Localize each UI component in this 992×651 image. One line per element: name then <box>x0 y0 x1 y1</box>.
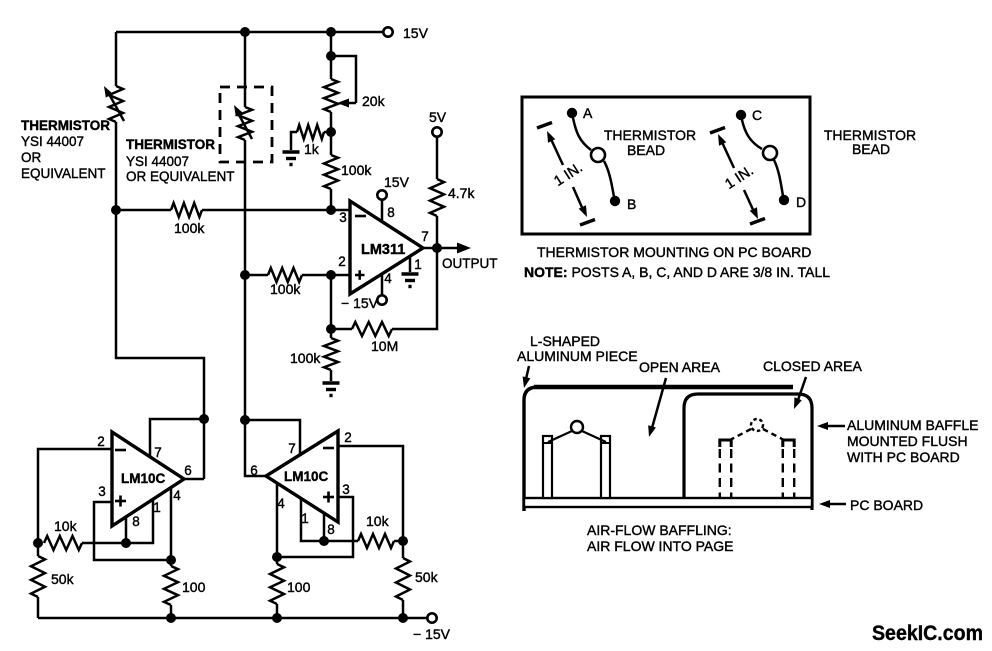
output arrow <box>437 243 498 272</box>
post A <box>567 105 593 121</box>
arrow pc board <box>819 500 846 508</box>
wire left column mid <box>115 122 118 210</box>
svg-text:THERMISTOR: THERMISTOR <box>21 118 110 133</box>
svg-text:THERMISTOR: THERMISTOR <box>126 137 215 152</box>
resistor 100k to ground <box>290 329 338 381</box>
U3 pin 7 wire <box>245 420 300 456</box>
thermistor RT1 label <box>21 118 110 181</box>
U2 pin 8 wire <box>126 514 140 543</box>
svg-text:SeekIC.com: SeekIC.com <box>872 621 983 645</box>
resistor 100k row1 <box>116 203 350 236</box>
bead open <box>548 421 606 442</box>
svg-text:D: D <box>796 194 806 210</box>
svg-text:100k: 100k <box>174 220 205 236</box>
wire bottom -15V rail <box>38 617 427 620</box>
U1 pin 1 <box>410 256 422 272</box>
post open 1 <box>543 436 552 498</box>
svg-text:3: 3 <box>98 484 106 499</box>
label L-shaped <box>517 333 638 364</box>
U3 pin 1 wire <box>301 498 324 541</box>
svg-text:B: B <box>627 196 636 212</box>
svg-text:YSI 44007: YSI 44007 <box>126 154 189 169</box>
svg-text:MOUNTED FLUSH: MOUNTED FLUSH <box>847 433 968 449</box>
node 1k-20k-100k <box>326 127 336 137</box>
dashed box thermistor RT2 <box>220 87 272 162</box>
node rail-20k <box>326 27 336 37</box>
U2 pin 2 wire <box>38 434 112 543</box>
svg-text:1 IN.: 1 IN. <box>722 163 756 193</box>
svg-text:− 15V: − 15V <box>413 626 451 642</box>
resistor 50k right <box>396 541 439 618</box>
svg-text:6: 6 <box>250 463 258 478</box>
ground 100k <box>323 383 340 396</box>
post B <box>610 196 637 212</box>
node 50k2-rail <box>398 613 408 623</box>
U3 pin 8 wire <box>324 513 335 541</box>
svg-text:7: 7 <box>154 445 162 460</box>
node U2 pin8 <box>121 538 131 548</box>
caption mounting <box>537 244 811 260</box>
svg-text:2: 2 <box>344 430 352 445</box>
node pot wiper tap <box>326 51 336 61</box>
wire 20k column top <box>330 32 333 79</box>
U2 pin 7 wire <box>150 419 204 460</box>
wire col2 top <box>244 32 247 107</box>
U2 minus sign <box>115 449 126 452</box>
svg-text:100k: 100k <box>290 350 321 366</box>
svg-text:PC BOARD: PC BOARD <box>850 497 923 513</box>
U2 pin 4 wire <box>171 487 181 560</box>
svg-text:OR EQUIVALENT: OR EQUIVALENT <box>126 169 235 184</box>
post open 2 <box>601 436 610 498</box>
PC-board mounting box <box>522 97 810 234</box>
wire col2 lower to U3 out <box>245 275 266 476</box>
svg-text:YSI 44007: YSI 44007 <box>21 134 84 149</box>
svg-text:8: 8 <box>387 205 395 220</box>
watermark SeekIC.com <box>872 621 983 645</box>
svg-text:C: C <box>752 107 762 123</box>
op-amp U2 LM10C <box>112 432 184 526</box>
arrow closed area <box>794 377 806 409</box>
svg-text:7: 7 <box>421 229 429 244</box>
svg-text:50k: 50k <box>51 571 75 587</box>
post closed 2 <box>783 440 794 498</box>
ground U1 pin1 <box>402 274 419 287</box>
potentiometer 20k <box>324 56 386 112</box>
node 10M-100k <box>326 324 336 334</box>
svg-text:50k: 50k <box>415 569 439 585</box>
wire left column lower + feedback to U2 out <box>116 210 204 479</box>
svg-text:15V: 15V <box>384 174 410 190</box>
wire left column top <box>115 32 118 86</box>
post closed 1 <box>720 440 731 498</box>
svg-text:BEAD: BEAD <box>627 142 665 158</box>
svg-text:100k: 100k <box>270 281 301 297</box>
svg-text:− 15V: − 15V <box>341 295 379 311</box>
svg-text:4: 4 <box>384 271 392 286</box>
svg-text:15V: 15V <box>403 25 429 41</box>
U1 plus sign <box>355 270 365 280</box>
svg-text:THERMISTOR MOUNTING ON PC BOAR: THERMISTOR MOUNTING ON PC BOARD <box>537 244 811 260</box>
resistor 10M <box>331 248 437 354</box>
node output <box>432 243 442 253</box>
op-amp U1 LM311 <box>350 201 423 294</box>
svg-text:A: A <box>583 105 593 121</box>
svg-text:LM311: LM311 <box>361 242 405 258</box>
svg-text:LM10C: LM10C <box>121 471 166 486</box>
svg-text:AIR-FLOW BAFFLING:: AIR-FLOW BAFFLING: <box>587 522 732 538</box>
post D <box>779 194 806 210</box>
node rail-thermistor2 <box>240 27 250 37</box>
svg-text:CLOSED AREA: CLOSED AREA <box>763 358 862 374</box>
thermistor bead CD <box>742 120 783 196</box>
terminal 5V <box>429 109 447 137</box>
label thermistor bead right <box>824 127 916 157</box>
svg-text:4: 4 <box>173 488 181 503</box>
svg-text:AIR FLOW INTO PAGE: AIR FLOW INTO PAGE <box>587 538 734 554</box>
svg-text:8: 8 <box>132 514 140 529</box>
thermistor RT2 label <box>126 137 235 184</box>
caption note <box>524 264 830 280</box>
svg-text:WITH PC BOARD: WITH PC BOARD <box>847 449 960 465</box>
resistor 4.7k <box>430 137 475 248</box>
label closed area <box>763 358 862 374</box>
svg-text:OR: OR <box>21 150 42 165</box>
label pc board <box>850 497 923 513</box>
thermistor bead AB <box>573 118 614 197</box>
node U2 output <box>199 414 209 424</box>
svg-text:ALUMINUM BAFFLE: ALUMINUM BAFFLE <box>847 417 978 433</box>
svg-text:10M: 10M <box>371 338 398 354</box>
svg-text:OUTPUT: OUTPUT <box>442 256 498 271</box>
svg-text:1: 1 <box>414 257 422 272</box>
node U3 pin8 <box>319 536 329 546</box>
L-shaped aluminum piece <box>524 387 793 511</box>
terminal -15V bottom <box>413 613 451 642</box>
U2 pin 3 wire <box>94 484 171 560</box>
svg-text:6: 6 <box>184 463 192 478</box>
dimension 1in CD <box>710 128 765 225</box>
node B row2-left <box>240 270 250 280</box>
resistor 1k <box>291 125 331 157</box>
svg-text:4: 4 <box>277 496 285 511</box>
aluminum baffle <box>684 394 812 510</box>
U1 pin 8 <box>382 200 395 222</box>
bead closed <box>728 419 786 441</box>
resistor 100 right <box>270 557 311 618</box>
arrow open area <box>648 378 666 437</box>
svg-text:2: 2 <box>338 254 346 269</box>
svg-text:LM10C: LM10C <box>284 469 329 484</box>
svg-text:2: 2 <box>97 434 105 449</box>
svg-text:1: 1 <box>153 500 161 515</box>
node row2-right <box>326 270 336 280</box>
svg-text:100k: 100k <box>341 162 372 178</box>
node U2 pin3-100 <box>166 555 176 565</box>
U3 pin 6 wire <box>250 463 258 478</box>
U1 pin 4 <box>382 271 392 295</box>
ground 1k <box>283 152 300 165</box>
svg-text:3: 3 <box>339 210 347 225</box>
label thermistor bead AB <box>604 127 696 158</box>
svg-text:100: 100 <box>182 579 206 595</box>
U3 pin 2 wire <box>338 430 403 541</box>
arrow aluminum baffle <box>817 422 845 430</box>
svg-text:3: 3 <box>342 482 350 497</box>
U3 pin 3 wire <box>277 482 353 557</box>
post C <box>736 107 762 123</box>
terminal -15V U1 pin4 <box>341 295 387 311</box>
U3 plus sign <box>323 492 334 503</box>
U1 minus sign <box>355 215 366 218</box>
svg-text:NOTE: POSTS A, B, C, AND D ARE: NOTE: POSTS A, B, C, AND D ARE 3/8 IN. T… <box>524 264 830 280</box>
svg-text:BEAD: BEAD <box>852 141 890 157</box>
svg-text:10k: 10k <box>366 513 390 529</box>
svg-text:7: 7 <box>288 441 296 456</box>
resistor 10k right <box>324 513 403 548</box>
svg-text:L-SHAPED: L-SHAPED <box>530 333 600 349</box>
svg-text:1k: 1k <box>304 141 320 157</box>
pc board bar <box>524 498 812 507</box>
U3 minus sign <box>323 447 334 450</box>
svg-text:ALUMINUM PIECE: ALUMINUM PIECE <box>517 348 638 364</box>
svg-text:100: 100 <box>287 579 311 595</box>
svg-text:10k: 10k <box>54 518 78 534</box>
svg-text:EQUIVALENT: EQUIVALENT <box>21 166 106 181</box>
U3 pin 4 wire <box>277 483 285 557</box>
node A row1-left <box>111 205 121 215</box>
svg-text:OPEN AREA: OPEN AREA <box>639 359 721 375</box>
label aluminum baffle <box>847 417 978 465</box>
terminal 15V U1 pin8 <box>377 174 409 200</box>
svg-text:8: 8 <box>327 522 335 537</box>
wire top 15V rail <box>116 31 384 34</box>
svg-text:4.7k: 4.7k <box>448 185 475 201</box>
resistor 100k row2 <box>245 268 350 297</box>
node row1-right <box>326 205 336 215</box>
thermistor RT1 <box>104 86 124 122</box>
svg-text:1: 1 <box>301 511 309 526</box>
U2 pin 6 wire <box>184 463 204 479</box>
wire col2 mid <box>244 140 247 275</box>
U2 plus sign <box>115 496 126 507</box>
svg-text:THERMISTOR: THERMISTOR <box>604 127 696 143</box>
arrow L-shaped <box>523 366 531 388</box>
svg-text:5V: 5V <box>429 109 447 125</box>
label open area <box>639 359 721 375</box>
U1 pin 7 label <box>421 229 429 244</box>
resistor 10k left <box>44 518 126 550</box>
U1 pin 3 label <box>339 210 347 225</box>
dimension 1in AB <box>537 123 595 226</box>
node U3 pin3-100 <box>272 552 282 562</box>
svg-text:1 IN.: 1 IN. <box>551 160 585 190</box>
U1 pin 2 label <box>338 254 346 269</box>
wire U1 output <box>423 247 437 250</box>
terminal 15V top <box>383 25 428 41</box>
U2 pin 1 wire <box>126 499 161 543</box>
wire pin2 node down <box>330 275 333 329</box>
node 10k1-50k1 <box>33 538 43 548</box>
node 10k2-50k2 <box>398 536 408 546</box>
caption air-flow <box>587 522 734 554</box>
node 100-rail right <box>272 613 282 623</box>
wire 20k to 1k node <box>330 112 333 132</box>
node U3 output <box>240 415 250 425</box>
resistor 100k divider <box>324 132 372 210</box>
resistor 100 left <box>164 560 206 618</box>
thermistor RT2 <box>234 105 252 140</box>
resistor 50k left <box>31 543 75 618</box>
svg-text:20k: 20k <box>362 93 386 109</box>
node 100-rail left <box>166 613 176 623</box>
op-amp U3 LM10C <box>266 431 338 522</box>
